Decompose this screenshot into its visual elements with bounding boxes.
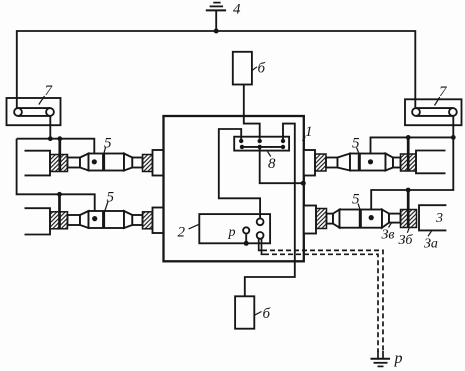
node row2L <box>57 192 62 197</box>
wire box7L to row1 <box>49 116 51 139</box>
row1L hatch b <box>143 155 153 172</box>
svg-text:3: 3 <box>435 211 443 226</box>
row2L cylinder 5 <box>89 211 125 228</box>
label 5 row2 right <box>352 192 360 210</box>
unit b top <box>233 52 252 85</box>
row1L flange <box>153 150 164 176</box>
svg-text:б: б <box>258 61 266 77</box>
row2L flange <box>153 208 164 234</box>
label 2 <box>178 225 199 241</box>
wire box7R to row1 <box>371 116 453 218</box>
machine row2 left: frame <box>25 208 51 234</box>
row1L stub b <box>132 158 142 168</box>
label 7 left <box>39 83 54 105</box>
wire brake row1 left <box>58 139 61 171</box>
row1R cone b <box>386 154 394 171</box>
control unit box 1 <box>164 116 304 261</box>
svg-text:7: 7 <box>439 84 448 100</box>
row2R cone a <box>333 210 340 228</box>
node row2R <box>406 188 411 193</box>
label 5 row2 left <box>105 190 115 212</box>
label 5 row1 right <box>352 136 360 154</box>
node row1R a <box>406 135 411 140</box>
svg-text:б: б <box>263 306 271 322</box>
machine row2 right: flange <box>304 206 316 234</box>
label 7 right <box>435 84 449 106</box>
node on box1 edge <box>301 181 306 186</box>
node row1L b <box>57 136 62 141</box>
row2R stub a <box>327 214 334 224</box>
row2R hatch b <box>401 210 417 228</box>
row2R cone b <box>382 210 389 228</box>
row1R hatch b <box>401 154 417 171</box>
label b top <box>252 61 266 77</box>
svg-text:За: За <box>424 237 438 252</box>
row1R hatch a <box>315 154 326 171</box>
svg-text:Зб: Зб <box>399 233 414 248</box>
unit b bottom <box>235 296 254 328</box>
row2L cone b <box>124 211 132 228</box>
wire brake row2 right <box>407 190 410 228</box>
row1R frame <box>416 151 446 174</box>
box8 contact dots <box>239 139 285 149</box>
wire box8 common down <box>260 147 304 183</box>
label Zb <box>399 228 414 248</box>
label b bottom <box>254 306 270 322</box>
pneumatic dashed line pair <box>259 238 383 358</box>
label Zv <box>382 223 395 243</box>
regulator box 2 <box>199 214 270 243</box>
svg-text:Зв: Зв <box>382 228 395 243</box>
box2 terminal top <box>257 218 264 225</box>
row1L cone <box>80 154 89 171</box>
row1R cylinder 5 <box>350 154 386 171</box>
row2R stub b <box>389 214 401 223</box>
wire brake row2 left <box>58 194 61 228</box>
svg-text:8: 8 <box>268 156 276 172</box>
row2L shaft stub <box>68 215 81 225</box>
row1R cone a <box>338 154 351 171</box>
svg-text:1: 1 <box>305 124 313 140</box>
svg-text:4: 4 <box>233 2 241 18</box>
wire row1 left <box>17 139 95 162</box>
box2 terminal bottom <box>257 232 264 239</box>
row1L shaft stub <box>68 158 81 168</box>
svg-text:р: р <box>394 350 403 367</box>
row1R stub a <box>326 158 338 168</box>
row2R hatch a <box>316 209 327 229</box>
box2 terminal p <box>243 227 249 233</box>
connector box 7 left <box>7 98 61 125</box>
row1R stub b <box>393 158 401 168</box>
row2L cone <box>80 211 89 228</box>
label 1 <box>303 124 313 141</box>
row1L cylinder 5 <box>89 154 125 171</box>
label Za <box>424 231 438 252</box>
ground symbol top (4) <box>206 3 226 31</box>
label 8 <box>268 152 277 173</box>
wire row1 right <box>371 137 454 161</box>
row2L hatch b <box>143 212 153 229</box>
node row1R b <box>451 135 456 140</box>
row1L bearing hatch <box>50 155 68 172</box>
box8 common rail <box>242 146 283 148</box>
wire left bracket <box>17 139 95 219</box>
label 5 row1 left <box>104 136 112 154</box>
svg-text:7: 7 <box>45 83 54 99</box>
relay box 8 <box>234 137 289 151</box>
row2L stub b <box>132 215 142 225</box>
wire brake row1 right <box>407 137 410 170</box>
machine row1 left: frame <box>25 151 51 176</box>
node box2 bottom <box>244 241 249 246</box>
wire box8 left path to box2 <box>219 129 260 218</box>
row2L bearing hatch <box>50 212 68 229</box>
row1L cone b <box>124 154 132 171</box>
node row1L a <box>48 136 53 141</box>
wire top bus <box>17 31 416 108</box>
wire b top to box8 <box>244 85 260 139</box>
svg-text:р: р <box>228 225 236 240</box>
machine row1 right: flange <box>304 150 315 176</box>
node bus junction <box>214 29 219 34</box>
load box 3 <box>419 205 446 230</box>
svg-text:2: 2 <box>178 225 186 241</box>
svg-text:5: 5 <box>352 136 360 152</box>
wire p terminal to frame <box>245 234 247 244</box>
ground symbol p bottom <box>371 359 391 367</box>
wire box8 right path to lower b <box>245 124 295 297</box>
row2R cylinder 5 <box>340 210 383 228</box>
connector box 7 right <box>405 99 462 125</box>
